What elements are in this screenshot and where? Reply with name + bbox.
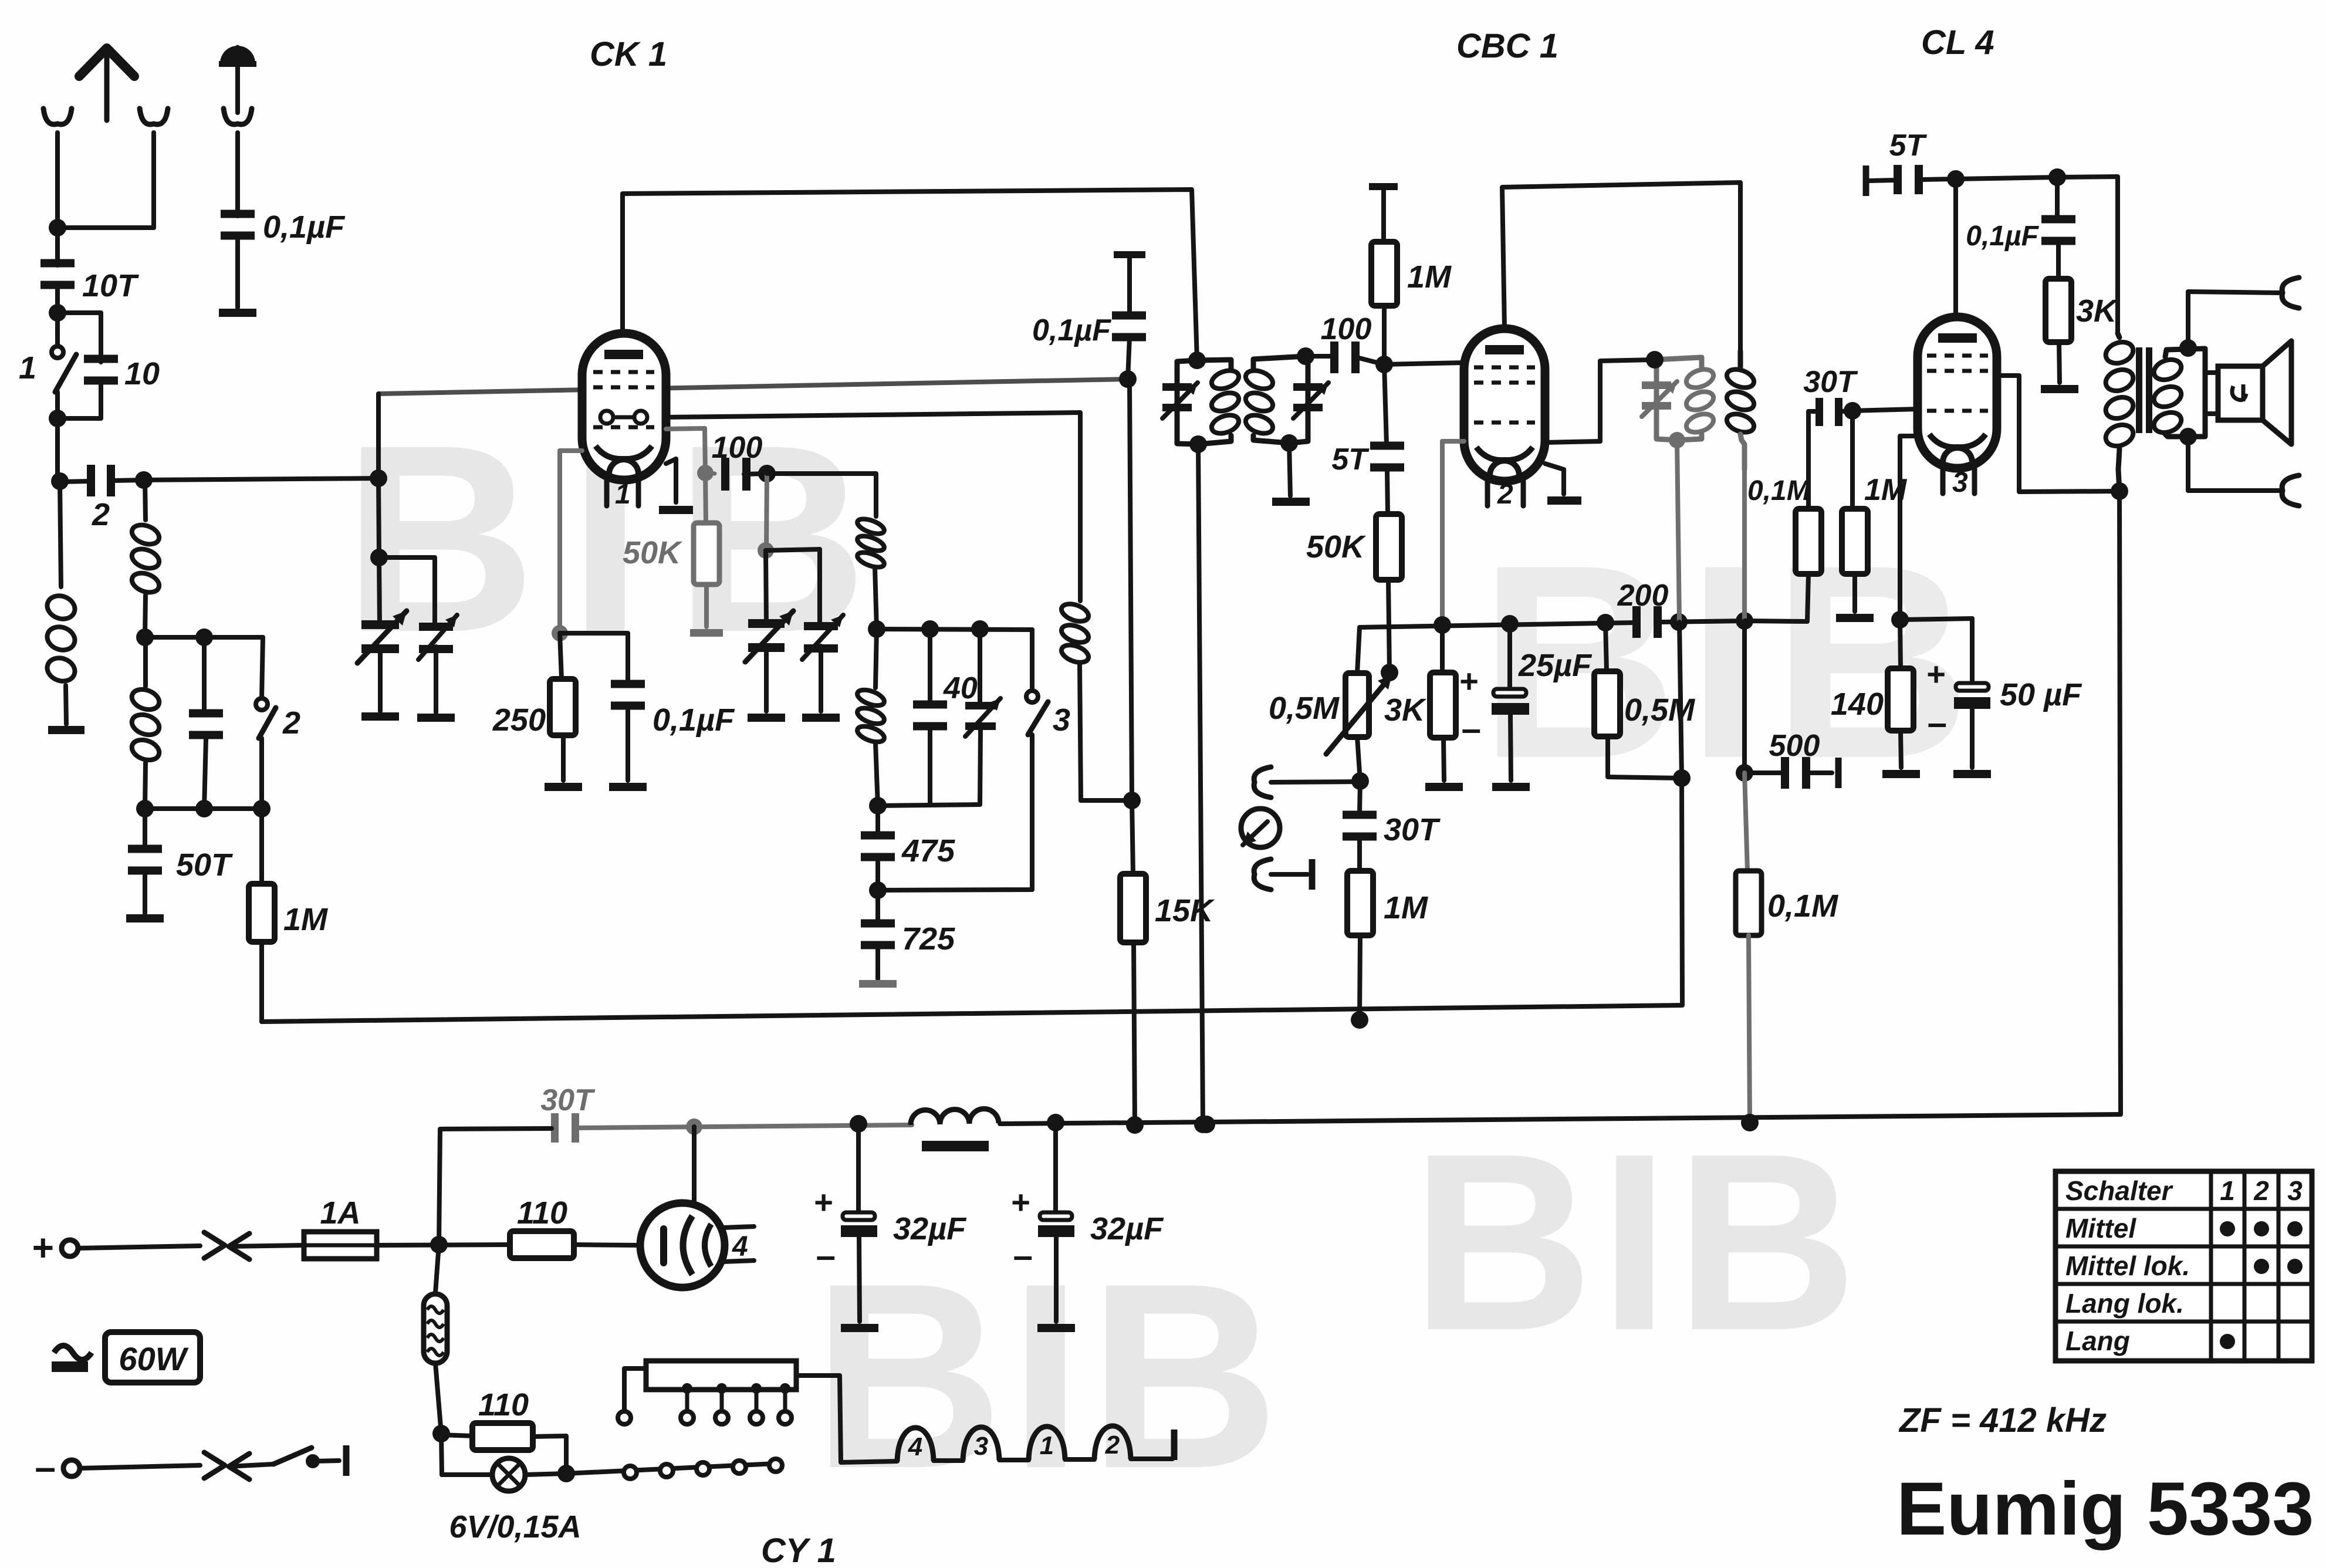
svg-text:0,1µF: 0,1µF: [263, 209, 346, 245]
label 60W: [105, 1332, 200, 1383]
svg-text:4: 4: [732, 1231, 748, 1262]
svg-text:1: 1: [615, 479, 631, 510]
decorative watermark: [813, 1229, 1285, 1523]
resistor 1M (CL4 grid): [1842, 411, 1908, 611]
chassis bar: [1369, 183, 1398, 190]
svg-text:50K: 50K: [1306, 529, 1367, 565]
wire: [758, 474, 774, 559]
filter choke: [911, 1109, 999, 1151]
svg-text:25µF: 25µF: [1518, 648, 1593, 683]
svg-text:725: 725: [902, 921, 955, 957]
svg-text:2: 2: [92, 497, 110, 532]
wire cathode bus: [1360, 614, 1634, 634]
capacitor 0,1uF: [221, 209, 346, 245]
svg-text:2: 2: [282, 705, 300, 741]
tube pin 3: [1943, 467, 1975, 498]
resistor 1M (AVC): [249, 809, 328, 1022]
grid wire: [379, 379, 1128, 394]
ground: [1882, 770, 1920, 778]
svg-text:250: 250: [492, 702, 546, 738]
wire diode plate: [1442, 441, 1464, 625]
switch blade 1: [19, 350, 76, 392]
wire: [819, 646, 823, 711]
switch contact 3: [1026, 630, 1070, 738]
svg-text:3: 3: [2287, 1175, 2303, 1206]
tube pin 2: [1487, 479, 1523, 510]
wire: [376, 394, 381, 478]
plug connector: [204, 1452, 273, 1479]
IF2 secondary tank: [1646, 351, 1702, 448]
capacitor 5T (tone): [1869, 129, 1928, 194]
svg-text:6V/0,15A: 6V/0,15A: [449, 1509, 581, 1545]
capacitor 32uF (2): [1011, 1123, 1164, 1322]
svg-text:30T: 30T: [1384, 812, 1441, 847]
svg-text:50T: 50T: [176, 847, 233, 883]
tube pin 1: [607, 479, 638, 510]
capacitor 10T: [40, 259, 139, 304]
IF1 secondary coil: [1243, 367, 1276, 437]
wire: [1289, 443, 1290, 496]
plug connector: [204, 1232, 304, 1259]
svg-text:CK 1: CK 1: [590, 35, 667, 73]
speaker cone: [2263, 341, 2291, 444]
capacitor 50T: [128, 809, 233, 913]
wire: [377, 1236, 510, 1253]
svg-text:140: 140: [1831, 687, 1884, 722]
svg-text:CY 1: CY 1: [761, 1532, 836, 1568]
speaker box: [2205, 366, 2263, 420]
label CL4: [1921, 23, 1994, 62]
svg-text:+: +: [1011, 1184, 1030, 1221]
capacitor 725: [861, 890, 955, 979]
wire: [113, 471, 153, 489]
label CY1: [761, 1532, 836, 1568]
grid wire CBC1: [1384, 363, 1464, 364]
IF1 primary tank: [1177, 352, 1231, 453]
svg-text:1A: 1A: [320, 1195, 360, 1231]
svg-text:Schalter: Schalter: [2065, 1175, 2173, 1206]
label CBC1: [1456, 27, 1558, 65]
svg-text:0,1M: 0,1M: [1747, 475, 1811, 506]
svg-text:3: 3: [1952, 467, 1968, 498]
wire: [49, 384, 101, 427]
capacitor 30T (B+): [540, 1083, 596, 1143]
resistor 1M (CBC1 return): [1347, 871, 1428, 1029]
capacitor 100 (osc grid): [712, 431, 763, 491]
svg-text:4: 4: [908, 1432, 922, 1461]
heater winding 4-3-1-2: [897, 1426, 1172, 1461]
decorative watermark: [343, 390, 900, 688]
wire: [878, 805, 980, 806]
wire: [439, 1128, 552, 1245]
wire: [666, 459, 676, 464]
panel pins: [681, 1383, 792, 1424]
svg-text:3: 3: [974, 1432, 988, 1461]
svg-text:32µF: 32µF: [893, 1211, 967, 1246]
capacitor 10: [84, 355, 160, 392]
resistor 0,1M (AF coupling): [1746, 411, 1821, 621]
svg-text:–: –: [1013, 1236, 1033, 1275]
label CK1: [590, 35, 667, 73]
svg-text:0,1µF: 0,1µF: [1966, 221, 2039, 252]
junction: [1375, 356, 1393, 373]
ground: [841, 1324, 878, 1332]
phono hook 2: [1254, 859, 1307, 890]
wire IF2 sec bottom: [1673, 441, 1691, 787]
wire: [378, 647, 383, 711]
ground: [748, 714, 785, 722]
svg-text:50 µF: 50 µF: [2000, 677, 2082, 712]
svg-text:10: 10: [124, 356, 160, 391]
wire: [626, 709, 630, 780]
wire: [1922, 170, 1965, 188]
ground: [2041, 385, 2078, 393]
wire CK1 cathode: [552, 451, 582, 641]
resistor 50K (IF): [1306, 514, 1402, 673]
svg-text:BIB: BIB: [1411, 1101, 1864, 1383]
wire: [51, 472, 89, 490]
ground: [609, 783, 647, 791]
coil L-feedback: [1059, 601, 1091, 800]
IF1 primary coil: [1209, 367, 1242, 437]
decorative watermark: [1479, 508, 1980, 816]
wire: [145, 806, 262, 811]
capacitor 2 (series): [87, 465, 115, 532]
svg-text:10T: 10T: [82, 268, 139, 303]
svg-text:–: –: [35, 1446, 56, 1488]
wire: [1736, 621, 1753, 782]
chassis bar: [343, 1445, 350, 1476]
wire: [1891, 611, 1972, 628]
svg-text:3: 3: [1053, 702, 1070, 738]
tube base pin 4: [724, 1226, 754, 1262]
svg-text:60W: 60W: [119, 1340, 188, 1377]
svg-text:Lang: Lang: [2065, 1326, 2130, 1356]
svg-text:200: 200: [1617, 579, 1669, 613]
fuse 1A: [304, 1195, 377, 1259]
wire: [253, 738, 271, 817]
capacitor 100 (IF): [1306, 312, 1384, 373]
wire anode CL4: [1953, 179, 1958, 317]
resistor 3K (CBC1): [1384, 625, 1456, 780]
wire: [767, 474, 876, 516]
wire: [1841, 411, 1852, 411]
label ZF: [1898, 1401, 2107, 1439]
ground: [1836, 614, 1874, 622]
ground: [1037, 1324, 1075, 1332]
coil L-osc upper: [856, 516, 886, 638]
output transformer primary: [2103, 333, 2136, 491]
svg-text:ZF = 412 kHz: ZF = 412 kHz: [1898, 1401, 2107, 1439]
wire AVC bus: [262, 1005, 1682, 1022]
svg-text:Lang lok.: Lang lok.: [2065, 1288, 2184, 1319]
capacitor 0,1uF (grid): [1032, 258, 1146, 379]
svg-text:+: +: [814, 1184, 833, 1221]
resistor 140: [1831, 620, 1913, 768]
svg-text:100: 100: [1321, 312, 1372, 346]
chassis bar: [1309, 859, 1316, 890]
wire: [1744, 773, 1747, 871]
plus terminal: [32, 1226, 200, 1269]
svg-text:–: –: [816, 1236, 836, 1275]
chassis bar: [1114, 251, 1145, 258]
svg-text:1M: 1M: [283, 902, 328, 937]
resistor 50K (CK1): [623, 473, 719, 627]
grid wire CL4: [1852, 409, 1918, 411]
wire: [58, 313, 101, 362]
phones hook top: [2282, 278, 2299, 308]
wire: [1956, 168, 2066, 186]
svg-text:500: 500: [1769, 729, 1820, 763]
wire: [766, 550, 766, 624]
ground: [126, 914, 164, 922]
earth symbol: [219, 46, 256, 67]
coil L2 RF: [129, 480, 161, 646]
capacitor 475: [861, 806, 955, 890]
wire cathode CL4: [1900, 436, 1918, 620]
coil L1 antenna: [44, 481, 78, 724]
chassis bar: [1171, 1430, 1178, 1460]
resistor 250: [492, 633, 576, 780]
svg-text:Eumig 5333: Eumig 5333: [1896, 1467, 2314, 1551]
wire: [370, 478, 388, 626]
switch table Schalter: [2055, 1171, 2312, 1361]
variable capacitor C-ant2: [418, 615, 457, 660]
wire: [877, 620, 1032, 638]
wire B+ riser: [2119, 491, 2121, 1114]
wire: [379, 557, 435, 627]
pickup symbol: [1241, 809, 1280, 847]
junction: [1844, 402, 1861, 420]
capacitor 500: [1744, 729, 1832, 789]
dial lamp 6V/0,15A: [441, 1434, 581, 1545]
capacitor 0,1uF (cathode): [611, 680, 735, 738]
svg-text:5T: 5T: [1889, 129, 1928, 163]
svg-text:3K: 3K: [1384, 692, 1427, 728]
dial panel: [646, 1361, 796, 1390]
rectifier heater lead: [692, 1127, 697, 1203]
wire: [1742, 469, 1747, 621]
antenna socket hook B: [140, 109, 168, 228]
svg-text:110: 110: [478, 1387, 529, 1422]
svg-text:15K: 15K: [1155, 893, 1215, 928]
capacitor 40: [913, 629, 978, 805]
ground: [1953, 770, 1991, 778]
ground: [690, 629, 723, 637]
capacitor 200: [1617, 579, 1669, 638]
svg-text:2: 2: [1105, 1431, 1120, 1459]
ground: [545, 783, 582, 791]
wire: [1126, 942, 1144, 1134]
resistor 110 (lamp shunt): [441, 1387, 575, 1482]
phono hook: [1254, 767, 1360, 797]
tube CL4: [1918, 317, 1997, 468]
antenna socket hook A: [43, 109, 72, 228]
ground: [219, 309, 256, 317]
svg-text:1M: 1M: [1384, 890, 1428, 925]
variable capacitor C-osc2: [802, 615, 843, 660]
tube CBC1: [1464, 329, 1545, 481]
cathode ground: [1545, 464, 1581, 505]
wire anode CBC1: [1502, 183, 1740, 351]
svg-text:+: +: [1926, 655, 1946, 692]
resistor 110 (dropper): [510, 1195, 574, 1258]
svg-text:0,1M: 0,1M: [1767, 888, 1838, 924]
IF1 secondary trimmer: [1293, 383, 1328, 418]
phones hook bottom: [2282, 475, 2299, 506]
switch contact 1: [52, 313, 63, 358]
wire: [766, 549, 820, 627]
ground: [361, 712, 399, 721]
decorative watermark: [1411, 1101, 1864, 1383]
rectifier CY1: [640, 1203, 725, 1287]
capacitor 10 (wave trap): [189, 637, 223, 817]
ground: [1425, 783, 1463, 791]
wire mixer anode to osc coil: [666, 413, 1080, 601]
wire: [55, 228, 60, 265]
svg-text:Mittel: Mittel: [2065, 1213, 2136, 1243]
antenna symbol: [79, 48, 134, 120]
minus terminal: [35, 1446, 200, 1488]
svg-text:0,5M: 0,5M: [1269, 691, 1340, 726]
switch contact 2: [256, 637, 300, 741]
wire: [1081, 792, 1141, 809]
wire: [434, 647, 438, 712]
svg-text:50K: 50K: [623, 535, 683, 570]
ground: [1492, 783, 1530, 791]
panel left pin: [618, 1368, 646, 1424]
IF2 secondary coil: [1684, 366, 1716, 436]
junction: [2179, 339, 2197, 445]
antenna socket hook C: [224, 109, 252, 216]
wire: [560, 633, 628, 683]
svg-text:110: 110: [517, 1195, 567, 1231]
svg-text:0,1µF: 0,1µF: [1032, 313, 1111, 347]
junction grid node: [1119, 370, 1137, 388]
variable capacitor C-osc: [745, 611, 793, 662]
wire diode to IF2: [1545, 360, 1655, 442]
wire screen tap: [666, 428, 714, 481]
IF2 secondary trimmer: [1642, 381, 1677, 417]
svg-text:2: 2: [2253, 1175, 2269, 1206]
resistor 15K: [1120, 874, 1215, 942]
IF2 primary coil: [1725, 351, 1757, 469]
wire lamp row: [566, 1464, 776, 1474]
chassis bar: [1835, 758, 1842, 788]
wire AVC bus riser: [1682, 778, 1682, 1005]
wire: [764, 646, 769, 711]
svg-text:+: +: [1459, 663, 1479, 699]
wire: [869, 735, 1032, 899]
svg-text:30T: 30T: [540, 1083, 596, 1117]
resistor 0,1M (B+ feed): [1736, 871, 1838, 1131]
ground: [859, 980, 897, 988]
wire: [705, 473, 715, 474]
capacitor 25uF: [1459, 624, 1593, 780]
svg-text:–: –: [1928, 703, 1947, 742]
wire: [744, 465, 776, 482]
wire: [2188, 292, 2279, 348]
wire IF1 primary bottom to B+: [1194, 444, 1212, 1133]
svg-text:1: 1: [19, 350, 36, 386]
svg-text:CBC 1: CBC 1: [1456, 27, 1558, 65]
svg-text:–: –: [1462, 709, 1481, 748]
capacitor 30T (AF): [1803, 365, 1858, 426]
svg-text:CL 4: CL 4: [1921, 23, 1994, 62]
potentiometer 0,5M: [1269, 627, 1398, 790]
title Eumig 5333: [1896, 1467, 2314, 1551]
coil L3 RF lower: [129, 640, 162, 817]
output transformer secondary: [2151, 349, 2205, 437]
chassis bar: [1863, 165, 1869, 196]
switch blade 3: [1028, 702, 1048, 735]
wire: [235, 238, 240, 307]
capacitor 32uF (1): [814, 1124, 967, 1322]
wire: [2188, 437, 2279, 491]
svg-text:475: 475: [901, 833, 955, 869]
wire: [2057, 177, 2118, 333]
svg-text:30T: 30T: [1803, 365, 1858, 399]
svg-text:1: 1: [2220, 1175, 2235, 1206]
wire screen CL4: [1997, 376, 2128, 500]
capacitor 0,1uF (tone): [1966, 177, 2075, 279]
capacitor 50uF: [1926, 619, 2082, 768]
terminal circles: [624, 1459, 782, 1479]
ground: [48, 726, 84, 734]
mains switch: [273, 1448, 339, 1468]
wire screen bus left: [576, 1118, 912, 1135]
wire: [145, 628, 263, 646]
svg-text:0,5M: 0,5M: [1624, 692, 1695, 728]
coil L-osc lower: [856, 629, 887, 815]
svg-text:BIB: BIB: [813, 1229, 1285, 1523]
capacitor 5T: [1331, 364, 1404, 514]
wire: [49, 288, 66, 322]
svg-text:3K: 3K: [2076, 293, 2119, 329]
svg-text:32µF: 32µF: [1090, 1211, 1164, 1246]
thermistor: [424, 1245, 450, 1442]
wire panel to heaters: [796, 1376, 897, 1462]
trimmer C-osc pad: [965, 629, 1000, 805]
wire screen bus right: [850, 1114, 2121, 1133]
wire vertical AVC/15K: [1130, 381, 1133, 874]
wire: [49, 219, 154, 236]
wire: [235, 67, 240, 113]
ground: [1272, 498, 1310, 506]
svg-text:Mittel lok.: Mittel lok.: [2065, 1251, 2190, 1281]
capacitor 30T (pickup): [1343, 781, 1441, 871]
wire anode supply bus: [623, 190, 1197, 360]
svg-text:1: 1: [1040, 1431, 1054, 1460]
switch blade 2: [259, 708, 276, 738]
wire: [55, 392, 60, 482]
svg-text:5T: 5T: [1331, 442, 1370, 477]
svg-text:1M: 1M: [1407, 259, 1452, 295]
svg-text:100: 100: [712, 431, 763, 465]
ground: [417, 714, 455, 722]
cathode ground CBC-style: [659, 459, 693, 514]
variable capacitor C-ant: [357, 611, 407, 663]
svg-text:40: 40: [943, 671, 978, 705]
tube CK1: [582, 333, 666, 480]
resistor 1M (grid CBC1): [1371, 190, 1452, 364]
wire antenna bus: [144, 469, 387, 487]
IF1 secondary tank: [1253, 347, 1314, 452]
wire: [574, 1245, 640, 1245]
ground: [802, 714, 840, 722]
resistor 3K (tone): [2046, 279, 2119, 383]
transformer core: [2136, 347, 2152, 433]
